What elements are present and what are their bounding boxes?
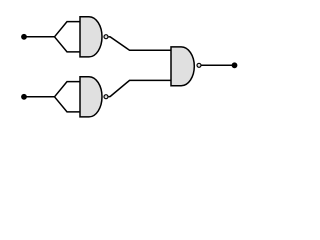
U2 output bubble <box>104 95 108 99</box>
node B (bottom input terminal) <box>21 94 27 100</box>
U1 output bubble <box>104 35 108 39</box>
node A (top input terminal) <box>21 34 27 40</box>
wire A lower branch into U1 pin 2 <box>55 37 81 52</box>
nand gate U2 body <box>80 77 102 117</box>
wire A to split <box>24 36 55 38</box>
wire A upper branch into U1 pin 1 <box>55 22 81 37</box>
nand gate U1 body <box>80 17 102 57</box>
wire B to split <box>24 96 55 98</box>
node Y (output terminal) <box>232 62 238 68</box>
nand gate U3 body <box>171 47 194 86</box>
wire U1 output to U3 pin 1 <box>109 37 171 51</box>
wire U2 output to U3 pin 2 <box>109 80 171 96</box>
wire U3 output to node Y <box>201 64 234 66</box>
wire B lower branch into U2 pin 2 <box>55 97 81 112</box>
U3 output bubble <box>197 63 201 67</box>
wire B upper branch into U2 pin 1 <box>55 82 81 97</box>
